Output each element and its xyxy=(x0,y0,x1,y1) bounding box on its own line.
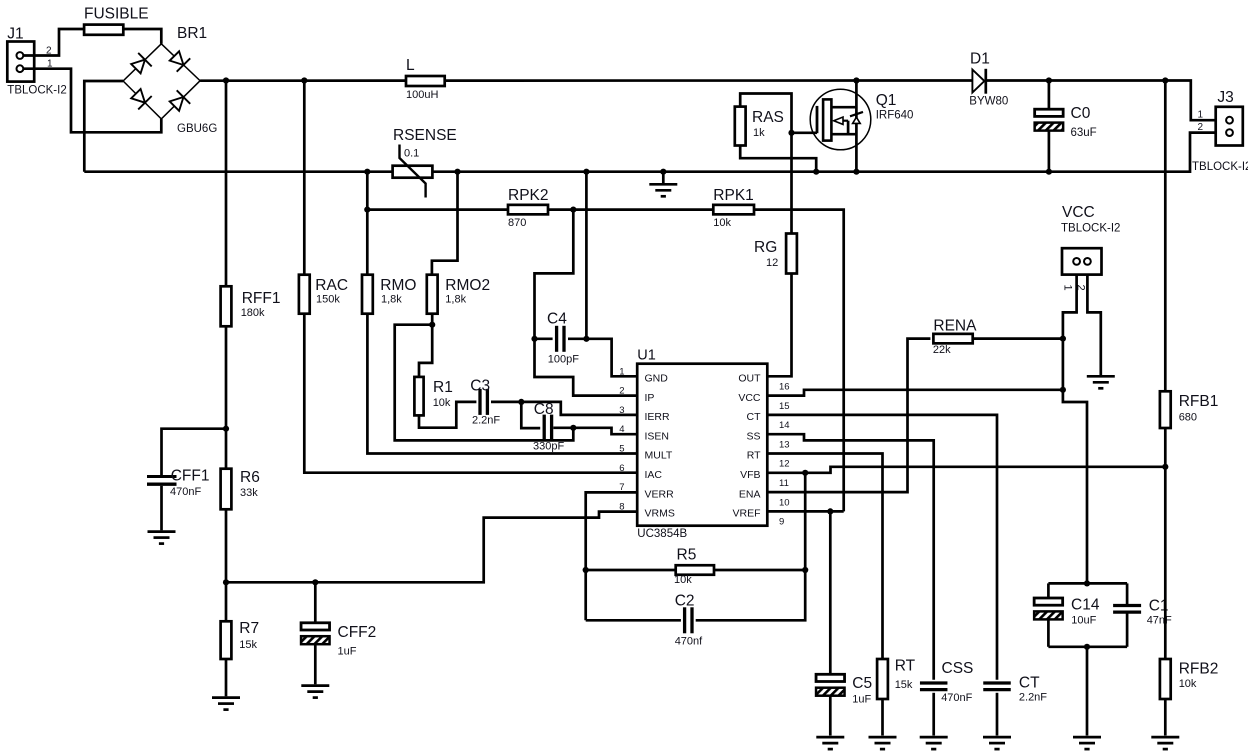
svg-text:C14: C14 xyxy=(1071,597,1100,614)
wire C14 to bottom xyxy=(1047,619,1050,646)
wire CFF2 to ground xyxy=(314,644,317,684)
svg-text:CT: CT xyxy=(1019,674,1040,691)
svg-text:15k: 15k xyxy=(895,679,913,691)
svg-text:C2: C2 xyxy=(675,593,695,610)
resistor RMO body xyxy=(362,275,373,314)
junction C4 right xyxy=(583,336,589,342)
ground (RFB2) xyxy=(1151,737,1179,749)
svg-text:GBU6G: GBU6G xyxy=(177,123,217,135)
wire C2 left xyxy=(586,619,681,622)
svg-text:VRMS: VRMS xyxy=(645,508,675,520)
ground (RT) xyxy=(869,737,897,749)
svg-text:CFF1: CFF1 xyxy=(171,468,210,485)
svg-text:2: 2 xyxy=(619,386,624,397)
wire R5 row xyxy=(586,569,806,572)
wire RMO to MULT pin5 xyxy=(367,314,637,454)
wire C2 right up to VFB pin11 xyxy=(696,473,806,621)
svg-text:C0: C0 xyxy=(1071,105,1091,122)
wire RENA to VCC net xyxy=(973,337,1063,340)
resistor RFB1 body xyxy=(1160,391,1171,428)
svg-text:IAC: IAC xyxy=(645,469,663,481)
wire RFF1 to R6 xyxy=(225,326,228,468)
wire RMO2 to node xyxy=(431,314,434,325)
wire RAS top loop to gate node xyxy=(740,94,791,133)
wire VFB pin11 to RFB divider xyxy=(767,467,1165,473)
ground (CT) xyxy=(983,737,1011,749)
resistor RPK2 body xyxy=(508,205,548,215)
wire J1.1 to BR1 AC- xyxy=(23,69,161,133)
svg-text:TBLOCK-I2: TBLOCK-I2 xyxy=(1192,161,1248,173)
wire R1 bottom to C3 left xyxy=(419,402,476,428)
wire C14/C1 bottom xyxy=(1048,645,1127,648)
junction RSENSE-right / bus xyxy=(454,169,460,175)
svg-text:GND: GND xyxy=(645,373,669,385)
wire + bus D1 to J3.1 xyxy=(986,81,1216,121)
svg-text:10k: 10k xyxy=(674,574,692,586)
wire SS pin13 down to CSS xyxy=(767,434,933,680)
svg-text:VFB: VFB xyxy=(740,469,760,481)
svg-text:100uH: 100uH xyxy=(406,89,438,101)
svg-text:10k: 10k xyxy=(1179,678,1197,690)
junction ISEN node xyxy=(570,425,576,431)
junction R5 right / VFB xyxy=(802,567,808,573)
wire VCC.2 to ground xyxy=(1087,275,1100,375)
wire C4 left to IP pin2 xyxy=(535,339,638,396)
transistor Q1 IRF640 xyxy=(810,81,871,172)
capacitor C3 xyxy=(480,389,487,415)
capacitor C0 (polarized) xyxy=(1035,109,1064,130)
svg-text:470nF: 470nF xyxy=(170,486,201,498)
wire to CFF2 xyxy=(314,582,317,623)
svg-text:SS: SS xyxy=(746,430,760,442)
svg-text:6: 6 xyxy=(619,463,624,474)
wire to C14 plate xyxy=(1047,583,1050,598)
svg-text:1,8k: 1,8k xyxy=(381,294,402,306)
svg-text:C3: C3 xyxy=(470,377,490,394)
wire RMO2 node to R1 top xyxy=(419,325,432,377)
svg-text:870: 870 xyxy=(508,217,526,229)
resistor RG body xyxy=(786,234,797,274)
junction C0 / + bus xyxy=(1046,77,1052,83)
wire CSS to ground xyxy=(932,693,935,736)
capacitor C2 xyxy=(685,607,692,633)
connector VCC (TBLOCK-I2) xyxy=(1062,248,1102,274)
svg-text:15k: 15k xyxy=(239,639,257,651)
junction CFF2 tap xyxy=(312,579,318,585)
wire RFB1 to RFB2 xyxy=(1164,428,1167,659)
wire node down to C8 left xyxy=(521,402,540,428)
wire C1 to bottom xyxy=(1126,612,1129,647)
diode D1 xyxy=(972,69,985,94)
wire return bus to J3.2 xyxy=(84,133,1215,172)
wire VRMS pin8 to divider xyxy=(226,512,637,583)
wire bus to RMO top xyxy=(366,172,369,275)
svg-text:1: 1 xyxy=(1062,285,1074,291)
resistor RSENSE body xyxy=(393,166,433,178)
svg-text:RPK1: RPK1 xyxy=(713,187,754,204)
svg-text:150k: 150k xyxy=(316,294,340,306)
svg-text:TBLOCK-I2: TBLOCK-I2 xyxy=(7,85,66,97)
wire VERR pin7 down xyxy=(586,492,638,620)
inductor L xyxy=(406,76,445,86)
svg-text:12: 12 xyxy=(779,459,790,470)
wire R6 to R7 xyxy=(225,509,228,621)
IC U1 UC3854B body xyxy=(637,364,767,526)
svg-text:180k: 180k xyxy=(241,307,265,319)
svg-text:VREF: VREF xyxy=(732,508,760,520)
wire J1.2 to fuse xyxy=(23,29,84,56)
capacitor C1 xyxy=(1113,606,1141,613)
ground (VCC connector) xyxy=(1087,376,1115,388)
svg-text:4: 4 xyxy=(619,424,624,435)
svg-text:J1: J1 xyxy=(7,26,23,43)
resistor RAS body xyxy=(735,107,746,146)
svg-text:OUT: OUT xyxy=(738,373,761,385)
svg-text:7: 7 xyxy=(619,482,624,493)
bridge rectifier BR1 diamond xyxy=(123,44,200,119)
wire to C4 left plate xyxy=(535,337,553,340)
svg-text:47nF: 47nF xyxy=(1147,615,1172,627)
wire VCC.1 down to C14 node xyxy=(1063,275,1087,584)
wire RFB2 to ground xyxy=(1164,699,1167,736)
resistor RFB2 body xyxy=(1160,659,1171,699)
svg-text:8: 8 xyxy=(619,501,624,512)
svg-text:J3: J3 xyxy=(1217,89,1233,106)
svg-text:R7: R7 xyxy=(239,620,259,637)
wire bus to RMO2 top xyxy=(432,172,458,275)
junction C3-C8 node xyxy=(518,399,524,405)
wire RT to ground xyxy=(881,699,884,736)
wire + bus down to RFF1 xyxy=(225,81,228,287)
ground (CSS) xyxy=(920,737,948,749)
wire RAC to IAC pin6 xyxy=(304,314,637,473)
resistor RPK1 body xyxy=(713,205,754,215)
wire to C1 top plate xyxy=(1126,583,1129,605)
svg-text:UC3854B: UC3854B xyxy=(637,528,687,540)
wire R7 to ground xyxy=(225,659,228,696)
svg-text:1k: 1k xyxy=(753,127,765,139)
svg-text:11: 11 xyxy=(779,478,789,489)
wire + bus to C0 xyxy=(1048,81,1051,110)
wire C3 right to IERR pin3 xyxy=(491,402,637,415)
ground (C14/C1) xyxy=(1073,737,1101,749)
junction R6/R7/VRMS xyxy=(223,579,229,585)
svg-text:1: 1 xyxy=(619,366,624,377)
junction RPK2-right tap xyxy=(570,207,576,213)
connector J3 (TBLOCK-I2) xyxy=(1216,107,1243,146)
svg-text:RT: RT xyxy=(747,450,761,462)
svg-text:10uF: 10uF xyxy=(1071,614,1096,626)
resistor RFF1 body xyxy=(221,286,232,326)
svg-text:L: L xyxy=(406,57,415,74)
bridge diode top-right (points to +) xyxy=(170,51,191,71)
wire CFF1 to ground xyxy=(160,486,163,531)
junction CFF1 tap xyxy=(223,426,229,432)
svg-text:CFF2: CFF2 xyxy=(338,624,377,641)
svg-text:12: 12 xyxy=(766,257,778,269)
wire RT pin12 down to RT resistor xyxy=(767,454,882,660)
svg-text:680: 680 xyxy=(1179,411,1197,423)
svg-text:3: 3 xyxy=(619,405,624,416)
wire bus tap down to C4 right xyxy=(585,172,588,339)
junction C4 branch / bus xyxy=(583,169,589,175)
svg-text:C8: C8 xyxy=(534,401,554,418)
resistor RAC body xyxy=(299,275,310,314)
svg-text:16: 16 xyxy=(779,382,790,393)
junction RSENSE-left / bus xyxy=(364,169,370,175)
wire fuse to BR1 AC+ xyxy=(123,29,161,44)
svg-text:330pF: 330pF xyxy=(533,441,564,453)
bridge diode top-left (points to AC+) xyxy=(131,53,152,74)
svg-text:33k: 33k xyxy=(240,487,258,499)
svg-text:9: 9 xyxy=(779,517,784,528)
resistor RT body xyxy=(877,659,888,699)
svg-text:RFB1: RFB1 xyxy=(1179,393,1219,410)
svg-text:CSS: CSS xyxy=(942,660,974,677)
svg-text:VCC: VCC xyxy=(738,392,761,404)
junction ground / bus xyxy=(660,169,666,175)
svg-text:TBLOCK-I2: TBLOCK-I2 xyxy=(1061,223,1120,235)
svg-text:1uF: 1uF xyxy=(852,693,871,705)
junction C5 tap xyxy=(827,508,833,514)
svg-text:5: 5 xyxy=(619,444,624,455)
svg-text:R6: R6 xyxy=(240,469,260,486)
capacitor C5 (polarized) xyxy=(816,674,845,695)
svg-text:RAS: RAS xyxy=(752,109,784,126)
junction VCC pin15 wire / VCC net xyxy=(1060,387,1066,393)
svg-text:C4: C4 xyxy=(547,311,567,328)
svg-text:IERR: IERR xyxy=(645,411,671,423)
bridge diode bottom-right xyxy=(170,90,191,111)
junction RMO2 bottom node xyxy=(429,322,435,328)
wire to CFF1 xyxy=(162,429,227,476)
capacitor CT xyxy=(983,683,1011,690)
svg-text:10k: 10k xyxy=(433,397,451,409)
svg-text:RMO2: RMO2 xyxy=(445,277,490,294)
wire + bus down to RAC xyxy=(303,81,306,275)
svg-text:470nf: 470nf xyxy=(675,636,703,648)
wire ENA pin10 up to RENA xyxy=(767,339,930,493)
capacitor CSS xyxy=(920,683,948,690)
junction RFB1/RFB2/VFB xyxy=(1162,464,1168,470)
svg-text:D1: D1 xyxy=(970,50,990,67)
ground (CFF2) xyxy=(301,686,329,698)
svg-text:IRF640: IRF640 xyxy=(876,110,914,122)
svg-text:15: 15 xyxy=(779,401,790,412)
ground (C5) xyxy=(816,737,844,749)
junction Q1 drain / + bus xyxy=(853,77,859,83)
wire BR1 minus to return bus xyxy=(84,81,123,172)
svg-text:RENA: RENA xyxy=(933,318,977,335)
junction C0 / return bus xyxy=(1046,169,1052,175)
svg-text:C5: C5 xyxy=(852,675,872,692)
ground (CFF1) xyxy=(148,532,176,544)
wire C8 right to ISEN node xyxy=(553,426,573,429)
wire C5 to ground xyxy=(829,696,832,736)
wire gate node to Q1 gate xyxy=(792,131,818,134)
resistor R1 body xyxy=(414,377,423,416)
svg-text:RT: RT xyxy=(895,657,916,674)
svg-text:1,8k: 1,8k xyxy=(445,294,466,306)
svg-text:ISEN: ISEN xyxy=(645,430,670,442)
fuse FUSIBLE xyxy=(84,25,123,35)
svg-text:BR1: BR1 xyxy=(177,25,207,42)
resistor RENA body xyxy=(933,334,972,344)
resistor R6 body xyxy=(221,469,232,510)
RSENSE diagonal strike xyxy=(400,145,426,198)
junction C14 bottom node xyxy=(1084,644,1090,650)
svg-text:BYW80: BYW80 xyxy=(969,96,1008,108)
capacitor CFF1 xyxy=(147,477,177,485)
svg-text:R5: R5 xyxy=(677,547,697,564)
svg-text:13: 13 xyxy=(779,439,790,450)
svg-text:RMO: RMO xyxy=(380,277,416,294)
junction R5 left xyxy=(583,567,589,573)
svg-text:FUSIBLE: FUSIBLE xyxy=(84,6,149,23)
capacitor C8 xyxy=(544,415,551,441)
wire RMO2 node to ISEN net xyxy=(395,325,574,441)
svg-text:1: 1 xyxy=(1197,110,1203,121)
svg-text:22k: 22k xyxy=(933,344,951,356)
junction C4 left xyxy=(531,336,537,342)
svg-text:MULT: MULT xyxy=(645,450,673,462)
junction RAC / + bus xyxy=(301,77,307,83)
wire C14 node to ground xyxy=(1086,647,1089,736)
svg-text:U1: U1 xyxy=(637,347,656,363)
svg-text:470nF: 470nF xyxy=(941,692,972,704)
capacitor C14 (polarized) xyxy=(1034,598,1063,619)
svg-text:2.2nF: 2.2nF xyxy=(1019,692,1047,704)
wire CT pin14 down to CT cap xyxy=(767,415,997,680)
wire C4 right to GND pin1 xyxy=(586,339,637,377)
svg-text:RFF1: RFF1 xyxy=(242,290,281,307)
junction RFF1 / + bus xyxy=(223,77,229,83)
wire RPK2-RPK1 row down to VREF xyxy=(367,210,843,512)
svg-text:RFB2: RFB2 xyxy=(1179,661,1219,678)
junction RAS / bus xyxy=(813,169,819,175)
wire C14/C1 top xyxy=(1048,582,1127,585)
wire + bus down to RFB1 xyxy=(1164,81,1167,392)
capacitor C4 xyxy=(557,326,564,352)
svg-text:63uF: 63uF xyxy=(1071,127,1097,139)
junction RFB1 / + bus xyxy=(1162,77,1168,83)
bridge diode bottom-left xyxy=(131,89,152,109)
wire VREF pin9 xyxy=(767,510,843,513)
wire OUT pin16 up through RG to gate node xyxy=(767,133,791,376)
svg-text:Q1: Q1 xyxy=(876,92,897,109)
svg-text:0.1: 0.1 xyxy=(404,148,419,160)
resistor RMO2 body xyxy=(427,275,438,314)
ground (R7) xyxy=(212,698,240,710)
wire C0 to return bus xyxy=(1048,131,1051,172)
resistor R7 body xyxy=(221,621,232,659)
wire bus to ground symbol xyxy=(662,172,665,183)
wire RAS bottom to source bus xyxy=(740,146,816,172)
wire VREF down to C5 xyxy=(829,511,832,674)
svg-text:2.2nF: 2.2nF xyxy=(472,415,500,427)
wire C4 right plate to node xyxy=(568,337,586,340)
svg-text:RPK2: RPK2 xyxy=(508,187,549,204)
wire CT cap to ground xyxy=(996,693,999,736)
wire RPK2 tap down to C4 left xyxy=(535,210,574,339)
svg-text:10k: 10k xyxy=(713,217,731,229)
svg-text:VERR: VERR xyxy=(645,488,675,500)
svg-text:RSENSE: RSENSE xyxy=(393,127,457,144)
svg-text:R1: R1 xyxy=(433,379,453,396)
svg-text:VCC: VCC xyxy=(1062,204,1095,221)
svg-text:1uF: 1uF xyxy=(338,646,357,658)
svg-text:CT: CT xyxy=(747,411,762,423)
junction VFB pin11 xyxy=(802,470,808,476)
junction RENA / VCC net xyxy=(1060,336,1066,342)
junction gate node xyxy=(788,130,794,136)
svg-text:14: 14 xyxy=(779,420,790,431)
junction Q1 source / bus xyxy=(853,169,859,175)
svg-text:RAC: RAC xyxy=(315,277,348,294)
wire + bus left of D1 xyxy=(200,79,972,82)
svg-text:10: 10 xyxy=(779,497,790,508)
svg-text:RG: RG xyxy=(754,239,777,256)
junction bus-tap / RPK2 row xyxy=(364,207,370,213)
svg-text:ENA: ENA xyxy=(739,488,761,500)
connector J1 (TBLOCK-I2) xyxy=(7,42,34,82)
svg-text:IP: IP xyxy=(645,392,655,404)
svg-text:2: 2 xyxy=(1197,122,1203,133)
wire ISEN node to pin4 xyxy=(573,428,637,434)
svg-text:100pF: 100pF xyxy=(548,353,579,365)
wire VCC pin15 to VCC net xyxy=(767,390,1063,396)
junction C14 top node xyxy=(1084,580,1090,586)
